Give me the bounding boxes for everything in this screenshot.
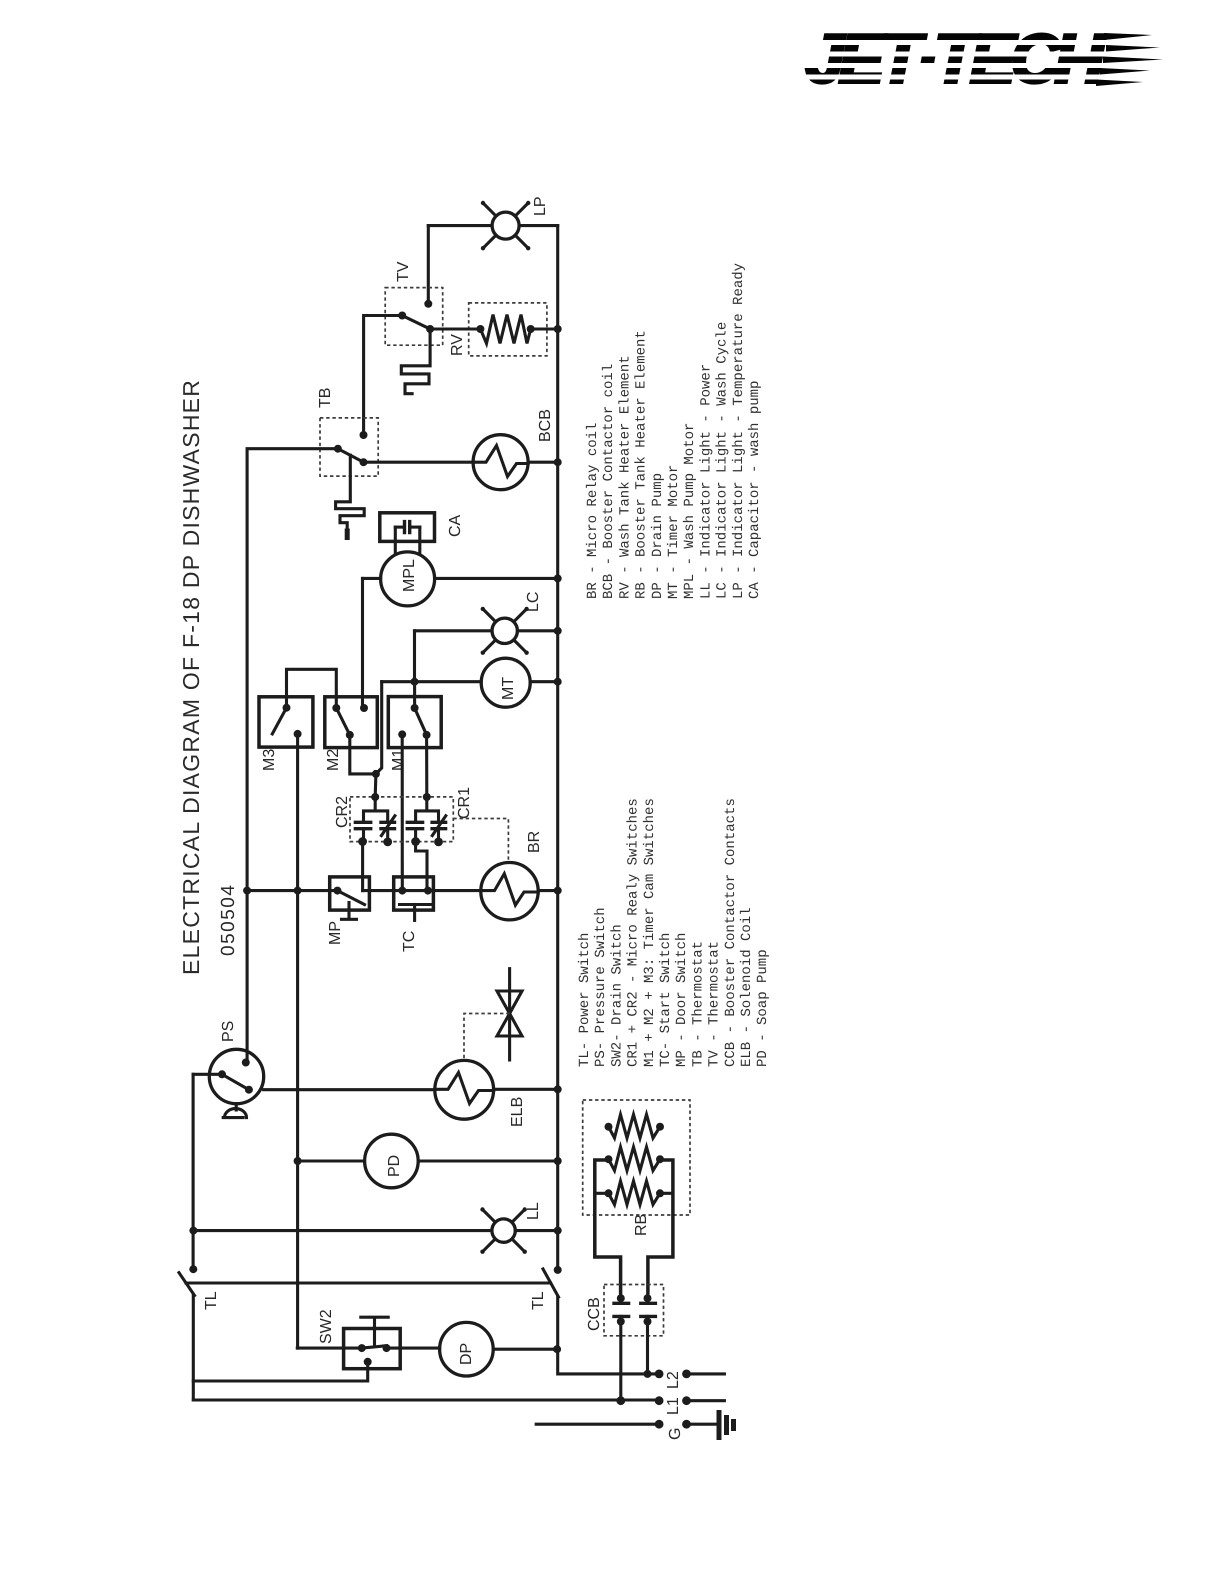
- thermostat switch TV (dashed box): [385, 288, 443, 346]
- indicator light LP: [481, 201, 531, 251]
- wire M1 blade to CR1: [425, 735, 428, 797]
- wire TL-TL link: [186, 1281, 551, 1284]
- svg-text:PD: PD: [386, 1155, 403, 1177]
- wire LP top feed: [428, 226, 557, 304]
- svg-text:TV: TV: [395, 261, 412, 282]
- svg-text:M3: M3: [261, 749, 278, 771]
- svg-text:SW2: SW2: [318, 1309, 335, 1344]
- solenoid valve symbol: [497, 969, 522, 1060]
- svg-text:TV - Thermostat: TV - Thermostat: [707, 941, 723, 1067]
- svg-text:CCB - Booster Contactor Contac: CCB - Booster Contactor Contacts: [723, 798, 739, 1067]
- wire M1 pivot to MT rail: [413, 682, 416, 708]
- RB frame box: [595, 1160, 673, 1295]
- svg-text:BCB - Booster Contactor coil: BCB - Booster Contactor coil: [601, 364, 617, 599]
- svg-text:M2: M2: [325, 749, 342, 771]
- svg-text:CA: CA: [447, 514, 464, 537]
- svg-text:L1: L1: [665, 1397, 682, 1415]
- svg-text:BR - Micro Relay coil: BR - Micro Relay coil: [585, 423, 601, 599]
- svg-text:CA - Capacitor - wash pump: CA - Capacitor - wash pump: [747, 381, 763, 599]
- contact CCB left: [614, 1294, 629, 1401]
- main rail through MP TC BR: [243, 887, 562, 895]
- svg-text:RB: RB: [633, 1214, 650, 1236]
- wire TV pivot feed: [364, 316, 403, 436]
- thermostat probe of TV: [401, 329, 430, 394]
- svg-text:JET·TECH: JET·TECH: [806, 21, 1106, 97]
- wire M3-M2 pivot jumper: [287, 669, 337, 708]
- motor MPL: [363, 552, 562, 707]
- svg-text:DP: DP: [458, 1343, 475, 1365]
- left rail PS to TL: [192, 1074, 195, 1269]
- svg-text:SW2- Drain Switch: SW2- Drain Switch: [609, 924, 625, 1067]
- indicator light LL: [189, 1207, 561, 1254]
- booster contactor contacts CCB (dashed box): [604, 1285, 664, 1336]
- dashed link CR1 to BR: [453, 819, 508, 862]
- timer cam switch M3 (box): [259, 697, 313, 747]
- svg-text:RV: RV: [449, 334, 466, 356]
- start switch TC (box): [394, 877, 434, 921]
- terminal G: [536, 1420, 716, 1429]
- timer cam switch M2 (box): [325, 697, 378, 748]
- svg-text:LL: LL: [525, 1202, 542, 1220]
- svg-text:RV - Wash Tank Heater Element: RV - Wash Tank Heater Element: [617, 355, 633, 599]
- svg-text:MP: MP: [327, 921, 344, 945]
- ground symbol: [719, 1413, 734, 1438]
- door switch MP (box): [330, 877, 370, 919]
- legend block 1: [585, 263, 763, 599]
- dashed link valve to ELB: [464, 1014, 510, 1059]
- svg-text:PD - Soap Pump: PD - Soap Pump: [755, 949, 771, 1067]
- relay coil BR: [481, 863, 538, 920]
- svg-text:TC: TC: [401, 931, 418, 952]
- right rail (upper part): [556, 226, 559, 1270]
- svg-text:TB - Thermostat: TB - Thermostat: [690, 941, 706, 1067]
- solenoid coil ELB: [264, 1060, 562, 1119]
- svg-text:050504: 050504: [218, 884, 239, 956]
- svg-text:CR1: CR1: [456, 787, 473, 819]
- svg-text:MT: MT: [500, 677, 517, 700]
- power switch TL left: [179, 1265, 197, 1400]
- svg-text:RB - Booster Tank Heater Eleme: RB - Booster Tank Heater Element: [634, 330, 650, 599]
- resistor RV (dashed box): [469, 303, 547, 356]
- relay contact CR1: [407, 793, 446, 846]
- thermostat probe of TB: [336, 455, 365, 536]
- terminal L2: [644, 1370, 725, 1379]
- node TB upper contact: [360, 431, 368, 439]
- heater element RB bottom: [605, 1181, 665, 1205]
- svg-text:TL: TL: [530, 1291, 547, 1310]
- micro relay switches CR2 CR1 (dashed box): [350, 797, 453, 842]
- node TV upper contact: [424, 300, 432, 308]
- svg-text:DP - Drain Pump: DP - Drain Pump: [650, 473, 666, 599]
- switch TB internals: [334, 445, 368, 467]
- wire M2 blade to CR2: [350, 735, 380, 797]
- svg-text:PS- Pressure Switch: PS- Pressure Switch: [593, 907, 609, 1067]
- legend block 2: [577, 798, 771, 1067]
- wire M3 contact rail drop: [296, 734, 299, 1348]
- soap pump PD: [294, 1134, 562, 1188]
- svg-text:CR1 + CR2 - Micro Realy Switch: CR1 + CR2 - Micro Realy Switches: [626, 798, 642, 1067]
- svg-text:M1 + M2 + M3: Timer Cam Switch: M1 + M2 + M3: Timer Cam Switches: [642, 798, 658, 1067]
- thermostat switch TB (dashed box): [320, 418, 378, 476]
- wire CR1 to TC contact: [416, 842, 427, 891]
- right rail (lower part): [558, 1297, 659, 1374]
- switch TV internals: [398, 312, 434, 334]
- svg-text:L2: L2: [665, 1371, 682, 1389]
- svg-text:M1: M1: [390, 749, 407, 771]
- wire CR2 to MP contact: [361, 842, 364, 891]
- drain switch SW2 (box): [193, 1317, 400, 1381]
- contact CCB right: [641, 1294, 656, 1374]
- svg-text:LL - Indicator Light - Power: LL - Indicator Light - Power: [698, 364, 714, 599]
- wire M1 aux to TC: [401, 734, 404, 890]
- svg-text:CR2: CR2: [334, 796, 351, 828]
- booster heater RB (dashed box): [583, 1100, 690, 1215]
- svg-text:TL: TL: [203, 1291, 220, 1310]
- svg-text:G: G: [667, 1428, 684, 1440]
- svg-text:MPL: MPL: [401, 559, 418, 592]
- timer motor MT: [382, 658, 562, 707]
- wire MT rail to CR2 coil: [376, 682, 382, 774]
- svg-text:MP - Door Switch: MP - Door Switch: [674, 933, 690, 1067]
- svg-text:MPL - Wash Pump Motor: MPL - Wash Pump Motor: [682, 423, 698, 599]
- heater element RB top: [605, 1115, 665, 1139]
- svg-text:TB: TB: [317, 388, 334, 408]
- svg-text:MT - Timer Motor: MT - Timer Motor: [666, 465, 682, 599]
- svg-text:LP: LP: [532, 196, 549, 216]
- relay contact CR2: [355, 793, 395, 846]
- svg-text:CCB: CCB: [586, 1297, 603, 1331]
- svg-text:TC- Start Switch: TC- Start Switch: [658, 933, 674, 1067]
- svg-text:ELB: ELB: [509, 1097, 526, 1127]
- svg-text:TL- Power Switch: TL- Power Switch: [577, 933, 593, 1067]
- indicator light LC: [415, 607, 562, 682]
- svg-text:BR: BR: [526, 831, 543, 853]
- svg-text:ELECTRICAL DIAGRAM OF F-18 DP: ELECTRICAL DIAGRAM OF F-18 DP DISHWASHER: [178, 379, 204, 975]
- svg-text:BCB: BCB: [537, 409, 554, 442]
- coil BCB: [364, 435, 562, 490]
- svg-text:ELB - Solenoid Coil: ELB - Solenoid Coil: [739, 907, 755, 1067]
- timer cam switch M1 (box): [388, 697, 441, 748]
- svg-text:LP - Indicator Light - Tempera: LP - Indicator Light - Temperature Ready: [731, 263, 747, 599]
- pressure switch PS: [193, 1049, 264, 1117]
- title text rotated: [178, 379, 239, 975]
- svg-text:LC: LC: [525, 592, 542, 612]
- svg-text:LC - Indicator Light - Wash Cy: LC - Indicator Light - Wash Cycle: [715, 322, 731, 599]
- svg-text:PS: PS: [220, 1021, 237, 1042]
- resistor RV element: [430, 315, 562, 344]
- heater element RB middle: [605, 1147, 665, 1171]
- terminal L1: [193, 1396, 724, 1405]
- drain pump DP: [387, 1322, 562, 1376]
- capacitor CA (box): [380, 513, 435, 554]
- power switch TL right: [543, 1266, 562, 1297]
- JET-TECH logo: [796, 21, 1163, 97]
- wire TB pivot feed / left rail top: [247, 449, 338, 1063]
